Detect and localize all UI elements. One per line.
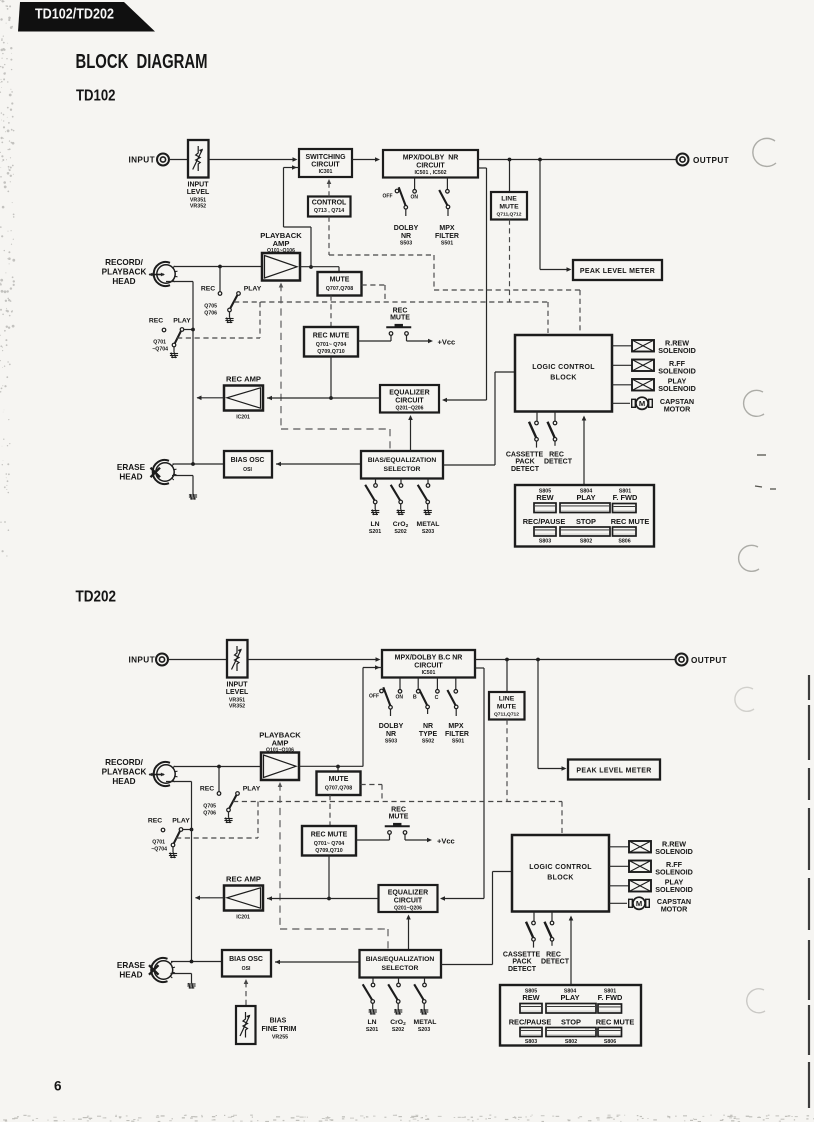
svg-text:S802: S802 (565, 1039, 577, 1045)
svg-text:M: M (639, 399, 645, 408)
wire to peak level meter (539, 160, 541, 270)
svg-text:CASSETTE: CASSETTE (503, 951, 541, 958)
amplifier PLAYBACK AMP Q101-Q106 (TD202) (261, 753, 299, 781)
solenoid PLAY (612, 384, 632, 386)
svg-text:EQUALIZER: EQUALIZER (388, 889, 428, 896)
svg-text:BIAS/EQUALIZATION: BIAS/EQUALIZATION (366, 956, 435, 963)
dashed control bottom to logic path (328, 217, 330, 256)
wire erase head to bias osc (173, 463, 225, 465)
svg-text:MPX: MPX (439, 225, 455, 232)
svg-text:CIRCUIT: CIRCUIT (311, 162, 340, 169)
erase head ground stub (TD202) (171, 973, 192, 975)
wire equalizer to rec amp (TD202) (267, 898, 379, 900)
svg-text:Q201~Q206: Q201~Q206 (394, 905, 422, 911)
svg-text:REC MUTE: REC MUTE (311, 832, 348, 839)
block BIAS/EQUALIZATION SELECTOR (TD202) (360, 950, 442, 978)
potentiometer VR351/VR352 INPUT LEVEL (188, 140, 209, 178)
amplifier REC AMP IC201 (TD202) (224, 886, 263, 911)
dashed logic bus horizontal (234, 301, 548, 303)
button REC/PAUSE S803 (TD202) (520, 1028, 542, 1037)
svg-text:C: C (435, 695, 439, 701)
svg-text:Q701: Q701 (152, 840, 165, 846)
wire erase head to bias osc (TD202) (171, 961, 222, 963)
svg-text:M: M (636, 899, 642, 908)
svg-text:INPUT: INPUT (128, 156, 155, 165)
block REC MUTE Q701-Q704 Q709 Q710 (TD202) (302, 826, 356, 856)
svg-text:STOP: STOP (561, 1018, 581, 1027)
block LOGIC CONTROL BLOCK (TD202) (512, 835, 609, 912)
svg-text:INPUT: INPUT (227, 682, 249, 689)
svg-text:MUTE: MUTE (329, 776, 349, 783)
dashed line mute to logic bus (509, 220, 511, 303)
svg-text:MOTOR: MOTOR (661, 904, 688, 913)
svg-text:OUTPUT: OUTPUT (693, 156, 729, 165)
svg-text:BLOCK: BLOCK (547, 875, 573, 882)
svg-text:IC501 , IC502: IC501 , IC502 (414, 170, 446, 176)
svg-text:PLAY: PLAY (244, 286, 262, 293)
erase head symbol with X (TD202) (154, 961, 172, 979)
svg-text:Q701~ Q704: Q701~ Q704 (316, 342, 347, 348)
svg-text:+Vcc: +Vcc (437, 837, 455, 846)
svg-text:SOLENOID: SOLENOID (658, 346, 696, 355)
arrow equalizer from selector (TD202) (408, 916, 410, 949)
svg-text:S202: S202 (394, 529, 406, 535)
svg-text:REC MUTE: REC MUTE (313, 333, 350, 340)
svg-text:SOLENOID: SOLENOID (655, 847, 693, 856)
dashed line mute to logic bus (TD202) (506, 720, 508, 802)
svg-text:LINE: LINE (499, 696, 515, 703)
svg-text:S803: S803 (539, 539, 551, 545)
svg-text:6: 6 (54, 1079, 62, 1094)
svg-text:IC201: IC201 (236, 415, 250, 421)
button STOP S802 (TD202) (546, 1028, 596, 1037)
wire to +Vcc (407, 340, 431, 342)
wire selector right to logic control (TD202) (441, 964, 493, 966)
svg-text:OSI: OSI (242, 966, 251, 972)
svg-text:F. FWD: F. FWD (598, 993, 623, 1002)
button F.FWD S801 (613, 504, 637, 513)
block BIAS OSC OS1 (224, 451, 272, 478)
svg-text:METAL: METAL (417, 521, 440, 528)
svg-text:PLAY: PLAY (172, 818, 190, 825)
svg-text:IC301: IC301 (319, 169, 333, 175)
svg-text:MPX: MPX (448, 723, 464, 730)
svg-text:REC: REC (201, 286, 215, 293)
wire input level to switching circuit (209, 159, 296, 161)
svg-text:S502: S502 (422, 739, 434, 745)
wire playback amp output to mute (300, 266, 339, 268)
button panel box (515, 485, 654, 547)
svg-text:SOLENOID: SOLENOID (658, 366, 696, 375)
svg-text:CIRCUIT: CIRCUIT (416, 163, 445, 170)
wire head lower tap down the left rail (TD202) (166, 781, 192, 783)
svg-text:S806: S806 (604, 1039, 616, 1045)
svg-text:LINE: LINE (501, 196, 517, 203)
svg-text:Q711,Q712: Q711,Q712 (494, 711, 519, 717)
dashed bus branch to play switch (TD202) (257, 802, 259, 839)
svg-text:+Vcc: +Vcc (438, 338, 456, 347)
switch CrO2 S202 (400, 479, 402, 484)
svg-text:NR: NR (401, 233, 411, 240)
svg-text:PEAK LEVEL METER: PEAK LEVEL METER (580, 268, 655, 275)
svg-text:HEAD: HEAD (112, 777, 135, 786)
svg-text:IC201: IC201 (236, 915, 250, 921)
svg-text:LOGIC CONTROL: LOGIC CONTROL (529, 864, 592, 871)
solenoid PLAY (TD202) (609, 885, 629, 887)
svg-text:Q706: Q706 (204, 311, 217, 317)
svg-text:SOLENOID: SOLENOID (655, 867, 693, 876)
svg-text:EQUALIZER: EQUALIZER (389, 389, 429, 396)
svg-text:Q713 , Q714: Q713 , Q714 (314, 208, 344, 214)
svg-text:PACK: PACK (512, 959, 531, 966)
wire MPX second output down to equalizer (TD202) (475, 667, 484, 669)
svg-text:HEAD: HEAD (119, 473, 142, 482)
svg-text:OUTPUT: OUTPUT (691, 656, 727, 665)
switch METAL S203 (427, 479, 429, 484)
svg-text:RECORD/: RECORD/ (105, 258, 143, 267)
switch CrO2 S202 (TD202) (398, 978, 400, 984)
svg-text:REC: REC (549, 451, 564, 458)
svg-text:BIAS/EQUALIZATION: BIAS/EQUALIZATION (368, 457, 437, 464)
record/playback head symbol (149, 274, 164, 276)
block REC MUTE Q701-Q704 Q709 Q710 (304, 327, 358, 357)
dashed bus branch to play switch (259, 302, 261, 338)
svg-text:MUTE: MUTE (389, 813, 409, 820)
svg-text:S501: S501 (441, 241, 453, 247)
switch REC/PLAY Q705 Q706 (TD202) (218, 767, 220, 792)
wire MPX output line to OUTPUT jack (TD202) (475, 659, 676, 661)
button PLAY S804 (560, 503, 610, 513)
svg-text:REC: REC (546, 951, 561, 958)
svg-text:METAL: METAL (414, 1019, 437, 1026)
block PEAK LEVEL METER (TD202) (568, 760, 660, 780)
dashed logic bus horizontal (TD202) (233, 801, 562, 803)
svg-text:~Q704: ~Q704 (151, 847, 167, 853)
block LINE MUTE Q711 Q712 (TD202) (506, 660, 508, 693)
switch cassette pack detect (536, 412, 538, 422)
svg-text:DETECT: DETECT (541, 959, 570, 966)
svg-text:BIAS: BIAS (270, 1018, 287, 1025)
block PEAK LEVEL METER (573, 260, 662, 280)
svg-text:AMP: AMP (272, 739, 289, 748)
node OUTPUT jack (TD102) (677, 154, 689, 166)
svg-text:DOLBY: DOLBY (394, 225, 419, 232)
erase head symbol with X (156, 463, 174, 481)
block LOGIC CONTROL BLOCK (515, 335, 612, 412)
svg-text:Q701: Q701 (153, 340, 166, 346)
svg-text:VR352: VR352 (229, 704, 245, 710)
svg-text:CIRCUIT: CIRCUIT (414, 663, 443, 670)
button REC/PAUSE S803 (534, 527, 556, 536)
svg-text:Q201~Q206: Q201~Q206 (396, 405, 424, 411)
amplifier REC AMP IC201 (224, 386, 263, 411)
switch rec detect (554, 412, 556, 422)
switch DOLBY NR S503 (TD202) (399, 678, 401, 690)
svg-text:TYPE: TYPE (419, 731, 438, 738)
svg-text:B: B (413, 694, 417, 700)
svg-text:OSI: OSI (243, 467, 252, 473)
svg-text:Q705: Q705 (204, 304, 217, 310)
amplifier PLAYBACK AMP Q101-Q106 (262, 253, 300, 281)
wire rec amp output to left rail (TD202) (196, 897, 225, 899)
wire selector to bias osc (TD202) (275, 961, 360, 963)
svg-text:CONTROL: CONTROL (312, 200, 347, 207)
svg-text:PLAY: PLAY (576, 493, 595, 502)
potentiometer VR351/VR352 INPUT LEVEL (TD202) (227, 640, 248, 678)
svg-text:REC: REC (200, 786, 214, 793)
svg-text:NR: NR (423, 723, 433, 730)
switch LN S201 (375, 479, 377, 484)
wire MPX output line to OUTPUT jack (478, 159, 677, 161)
svg-text:LN: LN (370, 521, 379, 528)
svg-text:FINE TRIM: FINE TRIM (262, 1026, 297, 1033)
svg-text:FILTER: FILTER (435, 233, 459, 240)
svg-text:BLOCK DIAGRAM: BLOCK DIAGRAM (76, 51, 208, 73)
svg-text:REC AMP: REC AMP (226, 875, 261, 884)
wire head to playback amp (TD202) (174, 766, 262, 768)
svg-text:CIRCUIT: CIRCUIT (395, 397, 424, 404)
wire switching to MPX/Dolby NR (352, 159, 377, 161)
svg-text:FILTER: FILTER (445, 731, 469, 738)
node OUTPUT jack (TD202) (676, 654, 688, 666)
svg-text:RECORD/: RECORD/ (105, 758, 143, 767)
wire selector to bias osc (276, 463, 361, 465)
svg-text:Q707,Q708: Q707,Q708 (326, 286, 353, 292)
svg-text:DETECT: DETECT (508, 966, 537, 973)
svg-text:INPUT: INPUT (188, 182, 210, 189)
button F.FWD S801 (TD202) (598, 1004, 622, 1013)
svg-text:~Q704: ~Q704 (152, 347, 168, 353)
svg-text:PLAY: PLAY (560, 993, 579, 1002)
svg-text:BLOCK: BLOCK (550, 375, 576, 382)
svg-text:REC MUTE: REC MUTE (611, 517, 650, 526)
solenoid R.REW (TD202) (609, 846, 629, 848)
svg-text:PLAY: PLAY (243, 786, 261, 793)
svg-text:REC MUTE: REC MUTE (596, 1018, 635, 1027)
svg-text:Q101~Q106: Q101~Q106 (266, 748, 294, 754)
wire rec mute to equalizer output line (330, 357, 332, 399)
dashed control line to playback amp (279, 283, 284, 288)
svg-text:DETECT: DETECT (511, 466, 540, 473)
wire input jack to input level (TD202) (168, 659, 227, 661)
svg-text:MUTE: MUTE (330, 277, 350, 284)
svg-text:PEAK LEVEL METER: PEAK LEVEL METER (576, 767, 651, 774)
svg-text:S806: S806 (618, 539, 630, 545)
svg-text:PLAY: PLAY (173, 318, 191, 325)
svg-text:TD202: TD202 (76, 589, 117, 606)
svg-text:REW: REW (536, 493, 553, 502)
capstan motor (612, 402, 630, 404)
svg-text:F. FWD: F. FWD (613, 493, 638, 502)
solenoid R.FF (612, 364, 632, 366)
svg-text:Q709,Q710: Q709,Q710 (315, 848, 342, 854)
svg-text:S802: S802 (580, 539, 592, 545)
wire head to playback amp (174, 266, 263, 268)
svg-text:BIAS OSC: BIAS OSC (229, 956, 263, 963)
svg-text:CIRCUIT: CIRCUIT (394, 897, 423, 904)
svg-text:DETECT: DETECT (544, 459, 573, 466)
wire playback amp output to mute and MPX feed (TD202) (299, 765, 363, 767)
solenoid R.REW (612, 345, 632, 347)
scan artifact: bottom edge noise (0, 0, 1, 1)
switch DOLBY NR S503 (414, 178, 416, 190)
svg-text:TD102: TD102 (76, 87, 116, 104)
button REC MUTE S806 (TD202) (598, 1028, 622, 1037)
switch MPX FILTER S501 (TD202) (455, 678, 457, 690)
svg-text:S503: S503 (400, 241, 412, 247)
svg-text:REC/PAUSE: REC/PAUSE (523, 517, 566, 526)
svg-text:DOLBY: DOLBY (379, 723, 404, 730)
svg-text:REC AMP: REC AMP (226, 375, 261, 384)
wire selector to equalizer (410, 450, 412, 451)
svg-text:Q701~ Q704: Q701~ Q704 (314, 841, 345, 847)
switch cassette pack detect (TD202) (533, 912, 535, 922)
svg-text:SELECTOR: SELECTOR (382, 965, 419, 972)
potentiometer BIAS FINE TRIM VR255 (245, 981, 247, 1006)
dashed mute to logic bus (TD202) (361, 784, 383, 786)
svg-text:ON: ON (411, 194, 419, 200)
wire button panel to logic control (583, 417, 585, 485)
svg-text:SELECTOR: SELECTOR (384, 466, 421, 473)
block CONTROL Q713 Q714 (308, 197, 351, 217)
wire rec amp output to left rail (197, 397, 224, 399)
wire MPX second output down to equalizer (478, 167, 487, 169)
svg-text:REC: REC (391, 806, 406, 813)
block MUTE Q707 Q708 (TD202) (317, 772, 361, 796)
button STOP S802 (560, 527, 610, 536)
svg-text:Q706: Q706 (203, 811, 216, 817)
block BIAS OSC OS1 (TD202) (222, 950, 271, 977)
dashed control line to playback amp (TD202) (278, 782, 283, 787)
svg-text:SOLENOID: SOLENOID (655, 885, 693, 894)
block switching circuit IC301 (299, 149, 352, 177)
wire button panel to logic control (TD202) (570, 917, 572, 985)
wire to +Vcc (TD202) (405, 839, 429, 841)
wire play contact to left rail (TD202) (183, 829, 192, 831)
svg-text:PLAYBACK: PLAYBACK (102, 268, 147, 277)
arrow equalizer from selector (410, 417, 412, 451)
dashed mute bottom to rec mute (TD202) (329, 795, 331, 826)
capstan motor (TD202) (609, 902, 627, 904)
svg-text:Q705: Q705 (203, 804, 216, 810)
dashed control to switching with arrow (328, 181, 330, 197)
wire input level to MPX/Dolby (TD202) (248, 659, 379, 661)
svg-text:REW: REW (522, 993, 539, 1002)
scan artifact: right edge streak (808, 675, 810, 1108)
dashed mute bottom to rec mute (330, 296, 332, 328)
svg-text:AMP: AMP (273, 239, 290, 248)
block LINE MUTE Q711 Q712 (509, 160, 511, 193)
svg-text:S202: S202 (392, 1027, 404, 1033)
svg-text:S501: S501 (452, 739, 464, 745)
svg-text:MUTE: MUTE (499, 204, 519, 211)
switch rec detect (TD202) (551, 912, 553, 922)
dashed mute to logic bus (362, 284, 386, 286)
wire playback feedback into switching circuit (284, 167, 300, 169)
svg-text:MOTOR: MOTOR (664, 404, 691, 413)
svg-text:S201: S201 (369, 529, 381, 535)
svg-text:REC: REC (393, 307, 408, 314)
svg-text:OFF: OFF (383, 194, 393, 200)
svg-text:LOGIC CONTROL: LOGIC CONTROL (532, 364, 595, 371)
switch REC/PLAY Q705 Q706 (219, 267, 221, 292)
svg-text:REC/PAUSE: REC/PAUSE (509, 1018, 552, 1027)
svg-text:ON: ON (396, 694, 404, 700)
button REW S805 (TD202) (520, 1004, 542, 1014)
svg-text:IC501: IC501 (422, 670, 436, 676)
svg-text:LEVEL: LEVEL (187, 189, 210, 196)
svg-text:SWITCHING: SWITCHING (305, 154, 346, 161)
wire selector right to logic control (443, 464, 495, 466)
svg-text:S203: S203 (422, 529, 434, 535)
svg-text:Q709,Q710: Q709,Q710 (317, 349, 344, 355)
block MPX/DOLBY B.C NR circuit IC501 (TD202) (382, 650, 475, 678)
wire rec mute to equalizer output line (TD202) (328, 856, 330, 899)
svg-text:PLAYBACK: PLAYBACK (102, 768, 147, 777)
svg-text:S503: S503 (385, 739, 397, 745)
svg-text:Q711,Q712: Q711,Q712 (496, 211, 521, 217)
svg-text:S203: S203 (418, 1027, 430, 1033)
record/playback head symbol (TD202) (149, 774, 164, 776)
wire equalizer to rec amp (267, 397, 380, 399)
svg-text:SOLENOID: SOLENOID (658, 384, 696, 393)
svg-text:MUTE: MUTE (497, 704, 517, 711)
erase head ground stub (172, 475, 193, 477)
svg-text:HEAD: HEAD (112, 277, 135, 286)
svg-text:S803: S803 (525, 1039, 537, 1045)
svg-text:CASSETTE: CASSETTE (506, 451, 544, 458)
svg-text:BIAS OSC: BIAS OSC (231, 457, 265, 464)
wire play contact to main vertical (184, 329, 193, 331)
svg-text:S201: S201 (366, 1027, 378, 1033)
svg-text:ERASE: ERASE (117, 463, 146, 472)
svg-text:MUTE: MUTE (390, 314, 410, 321)
header banner TD102/TD202 (18, 2, 155, 32)
block MUTE Q707 Q708 (318, 272, 362, 296)
scan artifact: punch hole arcs (735, 138, 776, 1012)
svg-text:MPX/DOLBY B.C NR: MPX/DOLBY B.C NR (395, 654, 463, 661)
svg-text:VR352: VR352 (190, 204, 206, 210)
switch LN S201 (TD202) (372, 978, 374, 984)
button PLAY S804 (TD202) (546, 1004, 596, 1014)
svg-text:TD102/TD202: TD102/TD202 (35, 6, 114, 23)
svg-text:LEVEL: LEVEL (226, 689, 249, 696)
wire head lower tap down the left rail (166, 281, 193, 283)
switch MPX FILTER S501 (446, 178, 448, 190)
svg-text:Q101~Q106: Q101~Q106 (267, 248, 295, 254)
block EQUALIZER CIRCUIT Q201-Q206 (TD202) (379, 885, 438, 912)
scan artifact: left edge noise (0, 0, 15, 557)
svg-text:NR: NR (386, 731, 396, 738)
button panel box (TD202) (500, 985, 641, 1046)
svg-text:ERASE: ERASE (117, 961, 146, 970)
block MPX/DOLBY NR circuit IC501 IC502 (383, 150, 478, 178)
svg-text:VR255: VR255 (272, 1035, 288, 1041)
wire to peak level meter (TD202) (537, 660, 539, 769)
svg-text:MPX/DOLBY NR: MPX/DOLBY NR (403, 154, 459, 161)
svg-text:REC: REC (149, 318, 163, 325)
block EQUALIZER CIRCUIT Q201-Q206 (380, 385, 439, 413)
svg-text:INPUT: INPUT (128, 656, 155, 665)
solenoid R.FF (TD202) (609, 865, 629, 867)
svg-text:STOP: STOP (576, 517, 596, 526)
svg-text:OFF: OFF (369, 694, 379, 700)
wire playback amp feed into MPX (TD202) (363, 667, 382, 669)
svg-text:HEAD: HEAD (119, 971, 142, 980)
svg-text:REC: REC (148, 818, 162, 825)
switch NR TYPE S502 (TD202) (417, 678, 419, 690)
button REW S805 (534, 503, 556, 513)
